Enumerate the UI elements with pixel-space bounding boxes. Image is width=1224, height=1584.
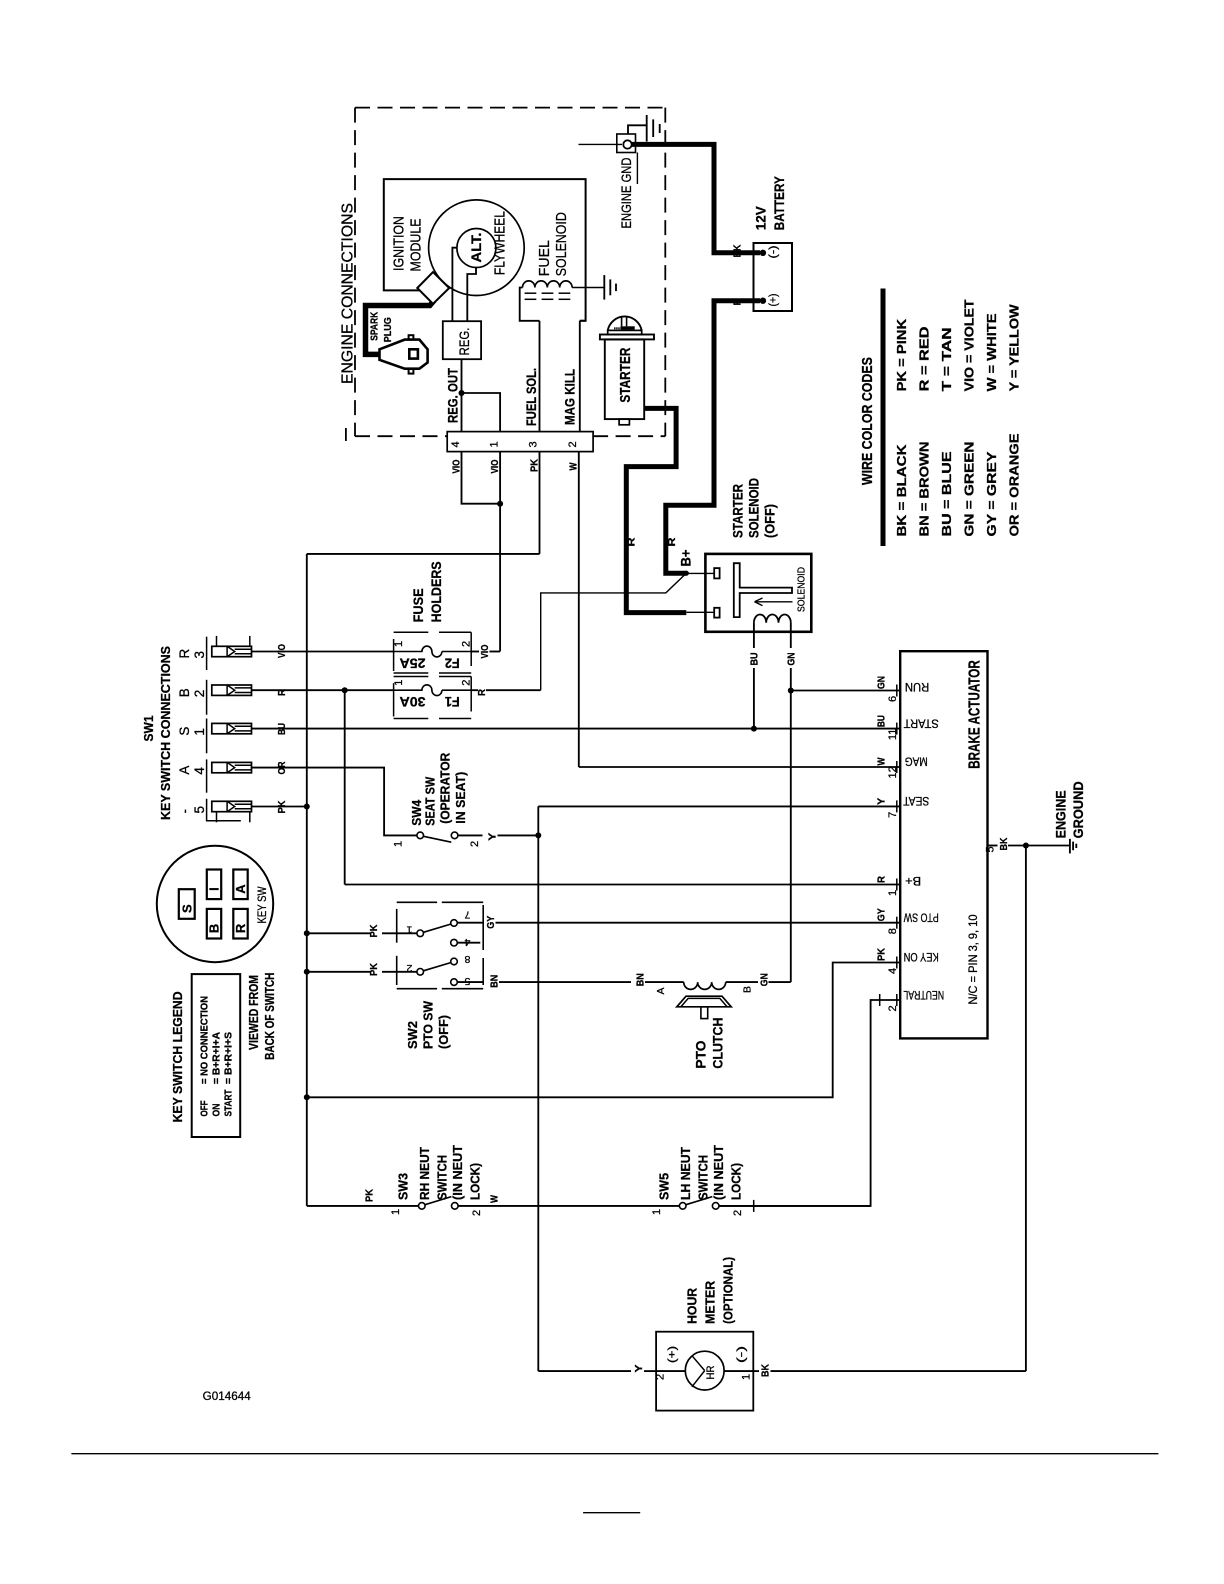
svg-text:BRAKE ACTUATOR: BRAKE ACTUATOR [967,660,984,769]
svg-text:BK: BK [998,837,1010,850]
svg-text:1: 1 [192,728,207,736]
svg-text:HR: HR [705,1365,717,1379]
svg-text:ON: ON [212,1104,223,1117]
svg-text:N/C = PIN 3, 9, 10: N/C = PIN 3, 9, 10 [966,914,980,1004]
svg-text:STARTER: STARTER [618,347,634,402]
svg-text:PTO SW: PTO SW [421,1000,436,1049]
svg-text:S: S [179,904,194,913]
svg-text:REG. OUT: REG. OUT [445,368,461,423]
svg-text:11: 11 [887,729,899,740]
svg-text:A: A [655,988,667,995]
svg-text:Y: Y [487,833,499,841]
svg-text:4: 4 [887,968,899,974]
svg-text:1: 1 [489,441,501,447]
svg-text:VIEWED FROM: VIEWED FROM [247,975,261,1050]
svg-text:METER: METER [703,1280,718,1324]
svg-text:PK: PK [276,800,288,813]
svg-text:2: 2 [469,841,481,847]
svg-text:(IN NEUT: (IN NEUT [451,1145,465,1200]
svg-text:LOCK): LOCK) [469,1163,483,1200]
svg-text:B+: B+ [678,550,694,567]
svg-text:W: W [876,757,888,765]
svg-text:PK = PINK: PK = PINK [895,319,909,392]
svg-text:PLUG: PLUG [383,317,394,342]
svg-text:= B+R+I+A: = B+R+I+A [212,1032,223,1084]
svg-text:KEY ON: KEY ON [904,950,939,962]
svg-text:6: 6 [887,696,899,702]
svg-text:-: - [177,809,192,814]
svg-text:OR = ORANGE: OR = ORANGE [1008,434,1022,537]
svg-text:BU: BU [276,723,288,735]
svg-text:A: A [177,766,192,775]
svg-text:R: R [876,876,888,883]
svg-text:BK = BLACK: BK = BLACK [895,445,909,537]
svg-text:F1: F1 [444,694,459,709]
svg-text:GN = GREEN: GN = GREEN [963,442,977,537]
svg-text:BN: BN [635,973,647,986]
svg-text:IN SEAT): IN SEAT) [454,772,468,824]
svg-text:B+: B+ [905,874,921,886]
svg-text:PK: PK [368,924,380,937]
svg-text:1: 1 [393,641,405,647]
svg-text:PK: PK [876,948,888,961]
svg-text:8: 8 [887,928,899,934]
svg-text:(OFF): (OFF) [436,1015,451,1049]
svg-text:7: 7 [887,812,899,818]
svg-text:B: B [207,924,222,933]
svg-text:1: 1 [393,680,405,686]
svg-text:LH NEUT: LH NEUT [679,1147,693,1200]
svg-text:T = TAN: T = TAN [940,327,954,391]
svg-text:SW2: SW2 [405,1021,420,1049]
svg-text:W: W [568,462,580,470]
svg-text:(+): (+) [768,294,780,307]
svg-text:SOLENOID: SOLENOID [746,478,762,538]
svg-text:A: A [233,884,248,894]
svg-text:R: R [476,689,488,696]
svg-text:1: 1 [741,1374,753,1380]
svg-text:1: 1 [406,924,412,936]
svg-text:W: W [489,1195,501,1203]
svg-text:START: START [224,1090,235,1117]
svg-text:MAG KILL: MAG KILL [562,369,578,425]
svg-text:BN: BN [489,975,501,988]
svg-text:25A: 25A [399,655,425,670]
svg-text:GN: GN [876,676,888,689]
svg-text:SWITCH: SWITCH [436,1155,450,1200]
svg-text:B: B [742,986,754,993]
svg-text:BU: BU [749,653,761,666]
svg-text:HOLDERS: HOLDERS [428,561,444,622]
svg-text:R: R [177,649,192,659]
svg-text:PTO: PTO [693,1040,709,1068]
svg-text:R: R [666,537,678,546]
svg-text:KEY SW: KEY SW [257,886,269,923]
svg-text:F2: F2 [445,655,460,670]
svg-text:CLUTCH: CLUTCH [710,1018,726,1069]
svg-text:BN = BROWN: BN = BROWN [918,442,932,537]
svg-text:FUSE: FUSE [410,588,426,622]
svg-text:2: 2 [567,441,579,447]
svg-text:1: 1 [393,841,405,847]
svg-text:STARTER: STARTER [730,484,746,538]
svg-text:BATTERY: BATTERY [771,176,787,231]
svg-text:3: 3 [528,441,540,447]
svg-text:HOUR: HOUR [685,1287,700,1324]
svg-text:GROUND: GROUND [1070,781,1086,838]
svg-text:BK: BK [732,244,744,257]
svg-text:GN: GN [786,653,798,666]
svg-text:4: 4 [450,441,462,447]
svg-text:1: 1 [651,1209,663,1215]
svg-text:MODULE: MODULE [408,219,425,272]
svg-text:RH NEUT: RH NEUT [418,1147,432,1200]
svg-text:5: 5 [985,846,997,852]
svg-text:2: 2 [655,1374,667,1380]
svg-text:SW4: SW4 [410,800,424,826]
svg-text:RUN: RUN [905,680,929,692]
svg-text:(-): (-) [736,1346,748,1363]
svg-text:IGNITION: IGNITION [391,216,408,271]
svg-text:30A: 30A [399,694,425,709]
svg-text:PTO SW: PTO SW [904,911,939,923]
svg-text:2: 2 [887,1005,899,1011]
svg-text:KEY SWITCH LEGEND: KEY SWITCH LEGEND [171,991,185,1122]
svg-text:SW5: SW5 [658,1173,672,1200]
svg-text:GY: GY [876,908,888,921]
svg-text:Y = YELLOW: Y = YELLOW [1008,304,1022,391]
svg-text:2: 2 [192,690,207,698]
svg-text:Y: Y [876,798,888,805]
svg-text:OR: OR [276,761,288,774]
svg-text:(+): (+) [667,1346,679,1363]
svg-text:KEY SWITCH CONNECTIONS: KEY SWITCH CONNECTIONS [158,646,173,820]
svg-text:SW3: SW3 [397,1173,411,1200]
svg-text:VIO: VIO [479,645,491,659]
svg-text:R: R [732,298,744,305]
svg-text:(OFF): (OFF) [762,504,778,538]
svg-text:(-): (-) [768,246,780,259]
svg-text:(IN NEUT: (IN NEUT [712,1145,726,1200]
svg-text:FUEL: FUEL [536,240,553,276]
svg-text:MAG: MAG [905,755,928,767]
svg-text:FUEL SOL.: FUEL SOL. [523,368,539,426]
svg-text:(OPTIONAL): (OPTIONAL) [721,1257,736,1324]
svg-text:1: 1 [887,890,899,896]
svg-text:VIO: VIO [276,644,288,658]
svg-text:GY = GREY: GY = GREY [985,451,999,537]
svg-text:W = WHITE: W = WHITE [985,313,999,391]
svg-text:2: 2 [732,1210,744,1216]
svg-text:ENGINE: ENGINE [1053,790,1069,838]
svg-text:B: B [177,688,192,697]
svg-text:G014644: G014644 [203,1391,252,1403]
svg-text:ENGINE CONNECTIONS: ENGINE CONNECTIONS [340,203,357,384]
svg-text:OFF: OFF [200,1101,211,1117]
svg-text:5: 5 [192,806,207,814]
svg-text:GN: GN [759,973,771,986]
svg-text:BK: BK [760,1364,772,1377]
svg-text:REG.: REG. [457,328,472,356]
svg-text:BACK OF SWITCH: BACK OF SWITCH [263,973,277,1060]
svg-text:(OPERATOR: (OPERATOR [439,753,453,824]
svg-text:SWITCH: SWITCH [697,1155,711,1200]
svg-text:NEUTRAL: NEUTRAL [903,988,944,1000]
svg-text:5: 5 [464,975,470,987]
svg-text:S: S [177,727,192,736]
svg-text:GY: GY [485,916,497,929]
svg-text:I: I [207,887,222,891]
svg-text:8: 8 [464,953,470,965]
svg-text:WIRE COLOR CODES: WIRE COLOR CODES [859,357,876,485]
svg-text:R: R [276,689,288,696]
svg-text:Y: Y [633,1365,645,1373]
svg-text:SW1: SW1 [142,715,156,741]
svg-text:4: 4 [192,767,207,775]
svg-text:= B+R+I+S: = B+R+I+S [224,1032,235,1084]
svg-text:2: 2 [406,962,412,974]
svg-text:SPARK: SPARK [370,311,381,341]
svg-text:R: R [233,923,248,933]
svg-text:3: 3 [192,651,207,659]
svg-text:START: START [904,717,939,729]
svg-text:SEAT: SEAT [903,794,929,806]
svg-text:2: 2 [461,680,473,686]
svg-text:SOLENOID: SOLENOID [797,567,808,612]
svg-text:ALT.: ALT. [468,233,484,263]
svg-text:FLYWHEEL: FLYWHEEL [492,211,509,275]
svg-text:PK: PK [364,1189,376,1202]
svg-text:2: 2 [471,1210,483,1216]
svg-text:12: 12 [887,766,899,778]
svg-text:= NO CONNECTION: = NO CONNECTION [200,996,211,1084]
svg-text:ENGINE GND: ENGINE GND [619,157,634,228]
svg-text:2: 2 [461,641,473,647]
svg-text:SOLENOID: SOLENOID [553,212,570,276]
svg-text:7: 7 [464,909,470,921]
svg-text:BU = BLUE: BU = BLUE [940,452,954,537]
svg-text:R = RED: R = RED [918,326,932,391]
svg-text:1: 1 [390,1209,402,1215]
svg-text:BU: BU [876,715,888,727]
svg-text:12V: 12V [753,206,769,231]
svg-text:VIO = VIOLET: VIO = VIOLET [963,299,977,391]
svg-text:PK: PK [368,963,380,976]
svg-text:LOCK): LOCK) [730,1163,744,1200]
svg-text:SEAT SW: SEAT SW [424,777,438,826]
svg-text:R: R [626,537,638,546]
